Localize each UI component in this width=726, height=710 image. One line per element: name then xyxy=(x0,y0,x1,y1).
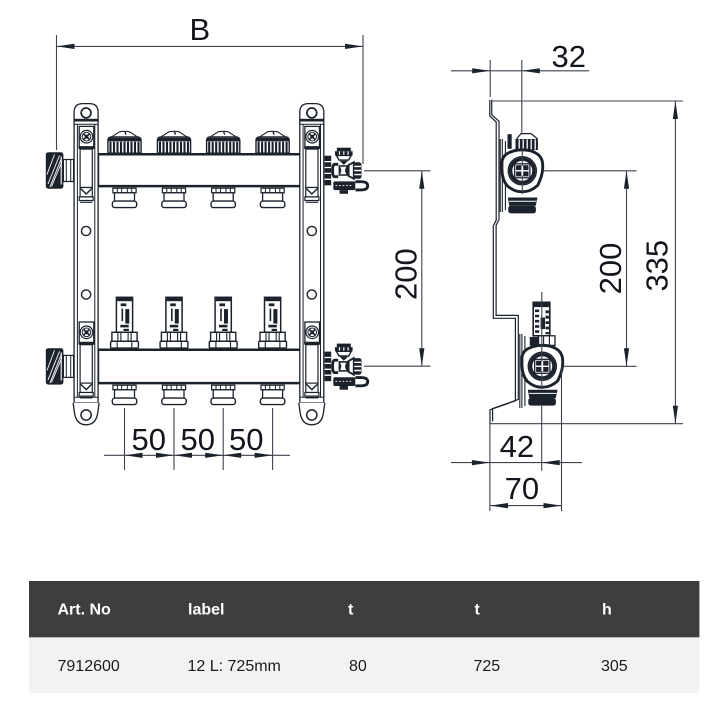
dimension 200 side xyxy=(544,171,637,366)
wall bracket profile (side) xyxy=(490,100,519,424)
svg-text:335: 335 xyxy=(639,240,674,292)
side valve 2 flow meter xyxy=(533,302,551,336)
fill/drain valve tube 1 xyxy=(325,148,368,194)
side valve 2 centerline xyxy=(541,292,543,389)
svg-text:7912600: 7912600 xyxy=(58,658,120,675)
outlet 3 under tube 2 xyxy=(211,385,235,404)
dimension 200 front xyxy=(364,171,431,366)
outlet 1 under tube 1 xyxy=(112,188,136,207)
side valve 2 connector nut xyxy=(530,336,555,346)
outlet 4 under tube 2 xyxy=(260,385,284,404)
outlet 4 under tube 1 xyxy=(260,188,284,207)
dimension 42 xyxy=(451,404,582,511)
side valve 1 cap xyxy=(516,134,538,150)
left mounting bracket rail xyxy=(73,104,99,425)
right bracket clamp at tube 2 xyxy=(304,322,320,398)
table data row xyxy=(29,637,699,693)
side valve 1 mount bar xyxy=(508,134,512,149)
left bracket clamp at tube 1 xyxy=(79,126,95,202)
dimension B xyxy=(57,35,364,164)
valve cap 1 xyxy=(108,131,141,153)
dimension 32 xyxy=(451,60,589,133)
svg-text:50: 50 xyxy=(131,422,165,457)
valve cap 3 xyxy=(207,131,240,153)
svg-text:70: 70 xyxy=(505,471,539,506)
valve cap 4 xyxy=(256,131,289,153)
valve cap 2 xyxy=(157,131,190,153)
side valve 1 centerline xyxy=(521,151,523,195)
dimension 70 xyxy=(490,367,562,511)
svg-text:725: 725 xyxy=(474,658,501,675)
manifold tube 1 (top, supply) xyxy=(98,153,303,187)
svg-text:Art. No: Art. No xyxy=(58,602,112,619)
outlet 2 under tube 2 xyxy=(162,385,186,404)
rail strip behind top side valve xyxy=(500,139,505,212)
flow meter 2 xyxy=(160,297,188,348)
svg-text:305: 305 xyxy=(601,658,628,675)
svg-text:200: 200 xyxy=(389,248,424,300)
flow meter 1 xyxy=(111,297,139,348)
rail strip behind bottom side valve xyxy=(520,334,525,408)
right bracket clamp at tube 1 xyxy=(304,126,320,202)
outlet 3 under tube 1 xyxy=(211,188,235,207)
manifold tube 2 (bottom, return) xyxy=(98,349,303,385)
table header row xyxy=(29,581,699,637)
svg-text:B: B xyxy=(189,12,210,47)
svg-text:80: 80 xyxy=(349,658,367,675)
svg-text:h: h xyxy=(602,602,612,619)
svg-text:32: 32 xyxy=(552,39,586,74)
svg-text:t: t xyxy=(475,602,481,619)
fill/drain valve tube 2 xyxy=(325,344,368,390)
svg-text:t: t xyxy=(348,602,354,619)
svg-text:label: label xyxy=(188,602,224,619)
svg-text:50: 50 xyxy=(181,422,215,457)
outlet 2 under tube 1 xyxy=(162,188,186,207)
side valve 2 outlet xyxy=(528,390,558,406)
svg-text:42: 42 xyxy=(500,429,534,464)
dimensions 50 50 50 xyxy=(104,408,290,470)
side valve 1 body xyxy=(502,150,543,192)
svg-text:200: 200 xyxy=(593,243,628,295)
flow meter 4 xyxy=(259,297,287,348)
svg-text:12 L: 725mm: 12 L: 725mm xyxy=(188,658,281,675)
right mounting bracket rail xyxy=(299,104,325,425)
flow meter 3 xyxy=(209,297,237,348)
end cap tube 2 xyxy=(46,348,74,384)
end cap tube 1 xyxy=(46,152,74,188)
outlet 1 under tube 2 xyxy=(112,385,136,404)
side valve 1 outlet xyxy=(508,198,538,214)
dimension 335 xyxy=(490,101,683,424)
left bracket clamp at tube 2 xyxy=(79,322,95,398)
side valve 2 body xyxy=(522,345,563,387)
svg-text:50: 50 xyxy=(229,422,263,457)
